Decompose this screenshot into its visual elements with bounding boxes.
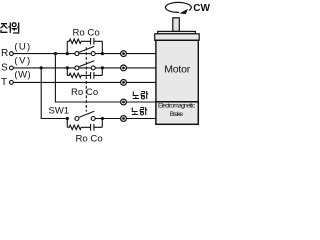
switch SW1 contacts bbox=[75, 117, 79, 121]
svg-text:R: R bbox=[1, 48, 8, 59]
CW rotation arrow bbox=[165, 2, 191, 12]
svg-text:(W): (W) bbox=[14, 70, 30, 81]
svg-text:(V): (V) bbox=[14, 55, 30, 66]
node S-RC left junction bbox=[66, 66, 69, 69]
node S tap junction bbox=[40, 66, 43, 69]
RC snubber branch 2 (below S line) bbox=[67, 72, 102, 79]
wire R tap vertical to brake wire 1 bbox=[55, 54, 156, 102]
label 전원 (power) bbox=[0, 23, 18, 34]
label yellow wire 1 (노랑) bbox=[133, 91, 149, 99]
connector terminal R bbox=[121, 51, 127, 57]
label yellow wire 2 (노랑) bbox=[132, 107, 148, 115]
contact (S phase) circles bbox=[75, 66, 79, 70]
contact (R phase) circles bbox=[75, 52, 79, 56]
wire RC2 risers bbox=[67, 68, 102, 76]
node R tap junction bbox=[54, 52, 57, 55]
wire RC3 risers bbox=[67, 119, 102, 128]
svg-text:SW1: SW1 bbox=[49, 106, 70, 117]
dashed mechanical link bbox=[85, 47, 87, 112]
contact (R phase) blade bbox=[79, 46, 94, 52]
svg-text:S: S bbox=[1, 62, 8, 73]
node SW1 right junction bbox=[101, 117, 104, 120]
wire R line bbox=[13, 53, 157, 55]
contact (S phase) blade bbox=[79, 61, 94, 67]
svg-text:Ro Co: Ro Co bbox=[73, 27, 100, 38]
node R-RC left junction bbox=[66, 52, 69, 55]
motor pilot plate bbox=[158, 31, 196, 33]
wire SW1 output bbox=[95, 118, 157, 120]
switch SW1 blade bbox=[79, 111, 94, 117]
wire T line bbox=[13, 81, 157, 83]
node R-RC right junction bbox=[101, 52, 104, 55]
node S-RC right junction bbox=[101, 66, 104, 69]
wire S line bbox=[13, 67, 157, 69]
node SW1 left junction bbox=[66, 117, 69, 120]
RC snubber branch 3 (below SW1) bbox=[67, 124, 102, 131]
electromagnetic brake box bbox=[156, 102, 198, 125]
wire S tap vertical to SW1 bbox=[41, 68, 67, 119]
svg-text:Ro Co: Ro Co bbox=[76, 133, 103, 144]
connector terminal brake 2 bbox=[121, 116, 127, 122]
svg-text:Ro Co: Ro Co bbox=[71, 87, 98, 98]
RC snubber branch 1 (above R line) bbox=[67, 38, 102, 45]
connector terminal S bbox=[121, 65, 127, 71]
svg-text:Brake: Brake bbox=[170, 111, 184, 118]
svg-text:Electromagnetic: Electromagnetic bbox=[158, 103, 196, 110]
motor body bbox=[156, 40, 198, 102]
svg-text:CW: CW bbox=[193, 3, 210, 14]
connector terminal brake 1 bbox=[121, 99, 127, 105]
wire RC1 risers bbox=[67, 41, 102, 53]
connector terminal T bbox=[121, 80, 127, 86]
motor flange plate bbox=[155, 34, 200, 41]
svg-text:T: T bbox=[1, 77, 7, 88]
motor shaft bbox=[173, 18, 180, 32]
svg-text:(U): (U) bbox=[14, 41, 30, 52]
svg-text:Motor: Motor bbox=[164, 64, 191, 76]
